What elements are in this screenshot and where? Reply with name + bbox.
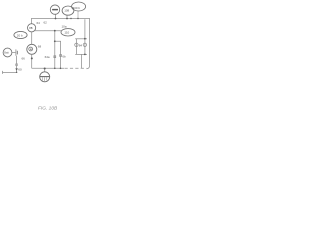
bus dashed part xyxy=(65,67,87,69)
reservoir drop xyxy=(44,68,46,72)
junction dot under 108 xyxy=(66,18,68,20)
left vertical wire xyxy=(16,56,18,73)
svg-text:20 b: 20 b xyxy=(17,33,23,37)
branch to second vertical xyxy=(55,41,61,68)
junction dot left column xyxy=(31,57,33,59)
wire from ellipse 110 to valve block xyxy=(84,19,86,39)
junction dot mid wire xyxy=(54,30,56,32)
wire vertical between circle 64 and pump 68 xyxy=(31,32,33,44)
ellipse 110 xyxy=(61,29,75,36)
svg-text:62: 62 xyxy=(44,20,48,24)
junction dot branch xyxy=(54,40,56,42)
wire horizontal mid xyxy=(35,30,61,32)
left terminal tick xyxy=(2,71,4,74)
battery plates xyxy=(15,49,17,55)
pump circle 68 xyxy=(27,44,37,54)
inline valve on right vertical xyxy=(60,55,62,57)
svg-text:108: 108 xyxy=(64,9,69,13)
bus solid part xyxy=(32,67,64,69)
wire drop from ellipse 108 xyxy=(66,15,68,18)
valve right branch xyxy=(84,39,86,55)
svg-text:8B: 8B xyxy=(29,26,32,30)
left bottom wire xyxy=(3,71,17,73)
svg-text:Batt: Batt xyxy=(4,52,9,55)
ellipse 100b xyxy=(72,2,86,11)
component tick on left vertical xyxy=(16,64,18,66)
valve left branch xyxy=(75,39,77,55)
battery circle xyxy=(3,48,12,57)
valve block center drop xyxy=(81,54,83,68)
wire drop from ellipse 100b xyxy=(77,11,79,19)
center vertical wire 1 xyxy=(54,31,56,69)
junction dot under 102 xyxy=(55,18,57,20)
svg-text:68: 68 xyxy=(38,45,42,49)
svg-text:60: 60 xyxy=(18,68,22,72)
ellipse 108 xyxy=(62,6,74,15)
reservoir circle xyxy=(40,72,50,82)
valve block top bar xyxy=(75,38,87,40)
svg-text:84: 84 xyxy=(79,43,83,47)
wire below pump to bus corner xyxy=(31,54,33,68)
inner band of circle 102 xyxy=(52,9,58,11)
battery wire xyxy=(12,52,16,54)
wire drop from pump circle 102 xyxy=(55,14,57,18)
svg-text:110: 110 xyxy=(64,31,69,35)
junction dot bus right vertical xyxy=(60,68,62,70)
dot in pump 68 xyxy=(30,49,31,50)
component blob on left vertical xyxy=(15,68,18,70)
inline valve on center vertical xyxy=(54,56,56,58)
svg-text:100 b: 100 b xyxy=(73,6,81,10)
left ellipse label 20 xyxy=(14,31,27,38)
wire top bus with right side rail xyxy=(31,19,89,69)
component circle 64 (upper left) xyxy=(28,24,36,32)
junction dot reservoir xyxy=(44,67,46,69)
svg-text:64a: 64a xyxy=(45,55,50,59)
valve block bottom bar xyxy=(75,53,87,55)
motor circle 102 xyxy=(50,5,59,14)
svg-text:64: 64 xyxy=(37,21,41,25)
svg-text:10a: 10a xyxy=(62,25,67,29)
svg-text:FIG. 10B: FIG. 10B xyxy=(38,105,58,111)
svg-text:6b: 6b xyxy=(62,54,66,58)
svg-text:66: 66 xyxy=(22,57,26,61)
